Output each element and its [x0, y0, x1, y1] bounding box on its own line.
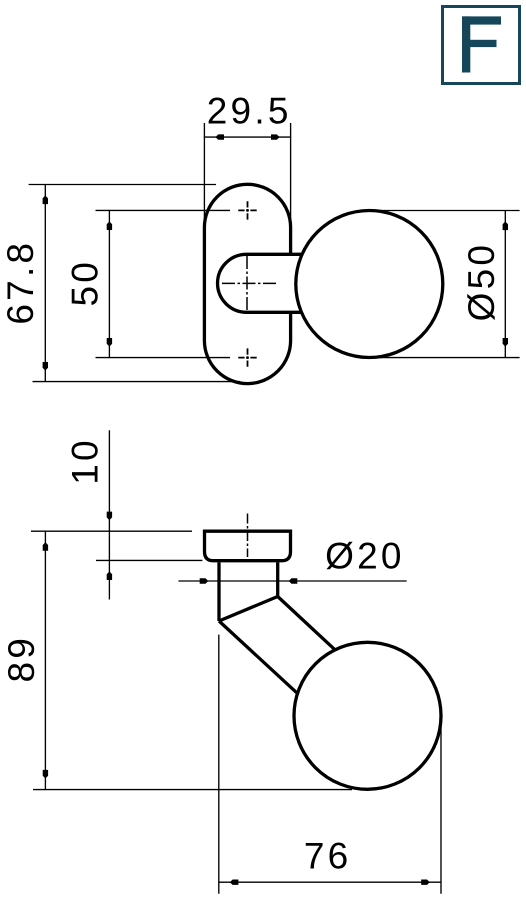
dimension 89 arrowhead bottom: [43, 770, 48, 779]
dimension 29.5 arrowhead right: [271, 134, 280, 139]
angled neck upper edge: [278, 597, 337, 652]
rose flange side view: [205, 531, 291, 561]
svg-text:50: 50: [65, 259, 106, 307]
dimension 76 arrowhead left: [230, 880, 239, 885]
flange axis centerline: [247, 514, 249, 558]
dimension 10 extension line top (flange top): [31, 530, 192, 532]
dimension 29.5 extension line right: [290, 123, 292, 228]
dimension 76 extension line right: [440, 712, 442, 894]
svg-text:89: 89: [1, 635, 42, 683]
dimension diameter 20 arrowhead left (points right): [200, 578, 209, 583]
dimension 50 extension line top: [96, 209, 231, 211]
dimension diameter 50 arrowhead bottom: [503, 338, 508, 347]
knob neck front view (bullet shape fill): [218, 254, 303, 312]
dimension 89 dimension line: [44, 531, 46, 789]
dimension diameter 50 extension line bottom: [371, 357, 520, 359]
dimension 10 arrowhead upper (points down): [107, 512, 112, 521]
dimension diameter 20 dimension line: [178, 580, 406, 582]
dimension 76 extension line left: [218, 635, 220, 894]
dimension diameter 50 extension line top: [371, 210, 520, 212]
dimension 89 extension line bottom (ball underside): [33, 789, 352, 791]
dimension 29.5 arrowhead left: [215, 134, 224, 139]
dimension 10 extension line bottom (flange bottom): [96, 559, 202, 561]
dimension 50 arrowhead top: [107, 221, 112, 230]
dimension 50 arrowhead bottom: [107, 338, 112, 347]
dimension 76 dimension line: [219, 881, 441, 883]
svg-text:67.8: 67.8: [0, 240, 41, 325]
dimension 29.5 extension line left: [203, 123, 205, 231]
angled neck lower edge: [219, 621, 301, 697]
knob ball front view: [296, 211, 443, 358]
knob neck front view (outline): [218, 254, 303, 312]
dimension 10 dimension line: [108, 430, 110, 599]
brand logo letter F: [462, 16, 501, 72]
neck axis centerline horizontal: [222, 282, 277, 284]
neck axis centerline vertical: [246, 256, 248, 311]
dimension 67.8 dimension line: [44, 185, 46, 382]
upper screw hole center mark: [238, 201, 256, 219]
neck cylinder right edge: [276, 562, 279, 596]
dimension diameter 20 arrowhead right (points left): [289, 578, 298, 583]
dimension 50 extension line bottom: [96, 357, 231, 359]
svg-text:Ø50: Ø50: [461, 242, 502, 322]
neck cylinder left edge: [217, 562, 220, 621]
lower screw hole center mark: [238, 348, 256, 366]
dimension 76 arrowhead right: [421, 880, 430, 885]
dimension 67.8 arrowhead top: [43, 196, 48, 205]
dimension 89 arrowhead top: [43, 542, 48, 551]
brand logo box border: [443, 7, 520, 84]
dimension diameter 50 dimension line: [504, 211, 506, 358]
dimension 10 arrowhead lower (points up): [107, 571, 112, 580]
dimension 29.5 dimension line: [204, 136, 291, 138]
oval rose plate (stadium outline): [204, 184, 290, 383]
knob ball side view: [294, 642, 441, 789]
dimension 67.8 extension line top: [29, 184, 216, 186]
neck bend miter line: [219, 597, 278, 622]
dimension 50 dimension line: [108, 210, 110, 357]
dimension 67.8 arrowhead bottom: [43, 362, 48, 371]
svg-text:10: 10: [65, 437, 106, 485]
svg-text:76: 76: [304, 835, 352, 876]
svg-text:29.5: 29.5: [207, 90, 292, 131]
dimension 67.8 extension line bottom: [33, 381, 241, 383]
svg-text:Ø20: Ø20: [325, 535, 405, 576]
dimension diameter 50 arrowhead top: [503, 222, 508, 231]
